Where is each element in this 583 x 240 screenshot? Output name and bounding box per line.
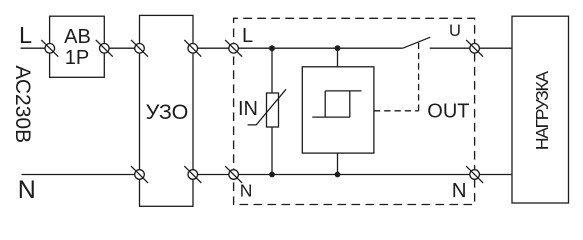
terminal X8 [184,166,201,183]
wire relay top [337,48,339,67]
wire L breaker to RCD [104,47,139,49]
hysteresis symbol bottom line [312,116,350,118]
terminal X10 [466,166,483,183]
wire varistor bottom [271,127,273,175]
wire N feed from source [22,174,140,176]
load box [512,16,569,203]
terminal X6 [466,40,483,57]
svg-text:1Р: 1Р [65,47,89,69]
switch SW1 blade [403,37,431,48]
node L relay junction [335,45,341,51]
terminal X5 [225,40,242,57]
terminal X9 [225,166,242,183]
wire L feed from source [21,47,50,49]
svg-text:УЗО: УЗО [146,100,189,124]
wire L RCD to protector [193,47,234,49]
relay U1 box [302,67,374,153]
svg-text:АС230В: АС230В [11,65,34,143]
control link dashed horizontal [374,110,419,112]
wire N RCD to protector [193,174,234,176]
varistor RU body [267,93,279,127]
svg-text:L: L [242,25,253,47]
hysteresis symbol top line [325,90,361,92]
svg-text:АВ: АВ [64,26,91,48]
RCD UZO box [140,15,194,206]
terminal X2 [96,40,113,57]
node L varistor junction [269,45,275,51]
hysteresis symbol right vertical [349,91,351,117]
svg-text:U: U [449,22,461,40]
wire L switch to load [430,47,512,49]
control link dashed vertical [418,42,420,111]
node N relay junction [335,172,341,178]
breaker AB 1P box [50,16,105,77]
wire relay bottom [337,153,339,174]
terminal X1 [41,40,58,57]
svg-text:N: N [18,176,36,204]
hysteresis symbol left vertical [324,91,326,117]
svg-text:OUT: OUT [427,101,469,123]
wire varistor top [271,48,273,93]
terminal X4 [184,40,201,57]
svg-text:N: N [452,179,467,202]
svg-text:НАГРУЗКА: НАГРУЗКА [532,71,552,150]
wire N inside protector to load [234,174,512,176]
svg-text:N: N [240,180,253,200]
terminal X7 [131,166,148,183]
wire L inside protector to switch [234,47,403,49]
surge protector dashed enclosure [234,18,475,204]
varistor RU diagonal stroke [248,89,286,125]
node N varistor junction [269,172,275,178]
svg-text:IN: IN [238,98,258,120]
svg-text:L: L [19,22,32,48]
terminal X3 [131,40,148,57]
